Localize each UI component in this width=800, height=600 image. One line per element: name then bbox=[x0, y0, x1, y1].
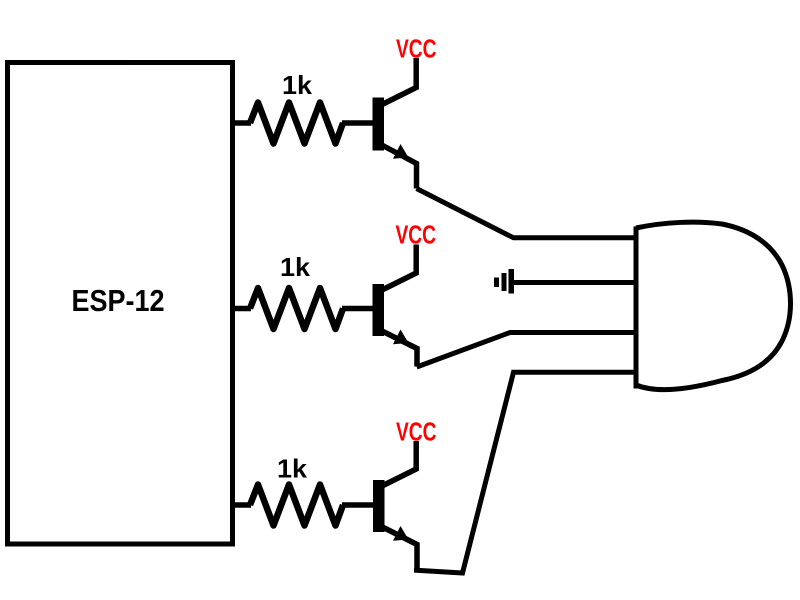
transistor Q2 base bar bbox=[373, 284, 385, 336]
svg-text:VCC: VCC bbox=[396, 220, 437, 250]
wire R1 to Q1 base bbox=[342, 120, 373, 126]
wire Q2 emitter to LED pin 3 bbox=[417, 333, 638, 368]
svg-text:1k: 1k bbox=[282, 70, 313, 100]
resistor R2 bbox=[250, 288, 343, 329]
wire Q1 emitter to LED pin 1 bbox=[417, 189, 639, 238]
transistor Q2 emitter arrow bbox=[393, 330, 409, 345]
transistor Q1 emitter leg bbox=[379, 144, 417, 189]
transistor Q3 emitter leg bbox=[380, 526, 418, 570]
LED LED1 body flat edge bbox=[634, 227, 639, 389]
LED LED1 body dome bbox=[636, 222, 791, 390]
transistor Q2 emitter leg bbox=[379, 330, 417, 367]
svg-text:ESP-12: ESP-12 bbox=[72, 283, 165, 318]
transistor Q1 base bar bbox=[373, 98, 385, 151]
transistor Q3 collector top leg bbox=[378, 441, 416, 488]
svg-text:VCC: VCC bbox=[396, 417, 437, 447]
wire ESP-12 pin 3 to resistor R3 bbox=[232, 502, 251, 508]
transistor Q3 base bar bbox=[373, 480, 385, 532]
wire Q3 emitter to LED pin 4 bbox=[417, 372, 639, 573]
transistor Q3 emitter arrow bbox=[393, 526, 409, 541]
wire ESP-12 pin 2 to resistor R2 bbox=[232, 306, 251, 312]
svg-text:VCC: VCC bbox=[396, 34, 437, 64]
IC U1 ESP-12 module box bbox=[8, 63, 233, 545]
resistor R3 bbox=[250, 485, 343, 526]
resistor R1 bbox=[250, 103, 343, 144]
wire R2 to Q2 base bbox=[342, 306, 373, 312]
svg-text:1k: 1k bbox=[277, 454, 308, 484]
wire ground to LED pin 2 bbox=[512, 280, 638, 285]
ground symbol bbox=[494, 269, 514, 294]
wire ESP-12 pin 1 to resistor R1 bbox=[232, 120, 251, 126]
svg-text:1k: 1k bbox=[280, 252, 311, 282]
transistor Q2 collector top leg bbox=[378, 245, 416, 293]
wire R3 to Q3 base bbox=[342, 502, 373, 508]
transistor Q1 collector top leg bbox=[378, 58, 416, 107]
transistor Q1 emitter arrow bbox=[393, 144, 409, 159]
